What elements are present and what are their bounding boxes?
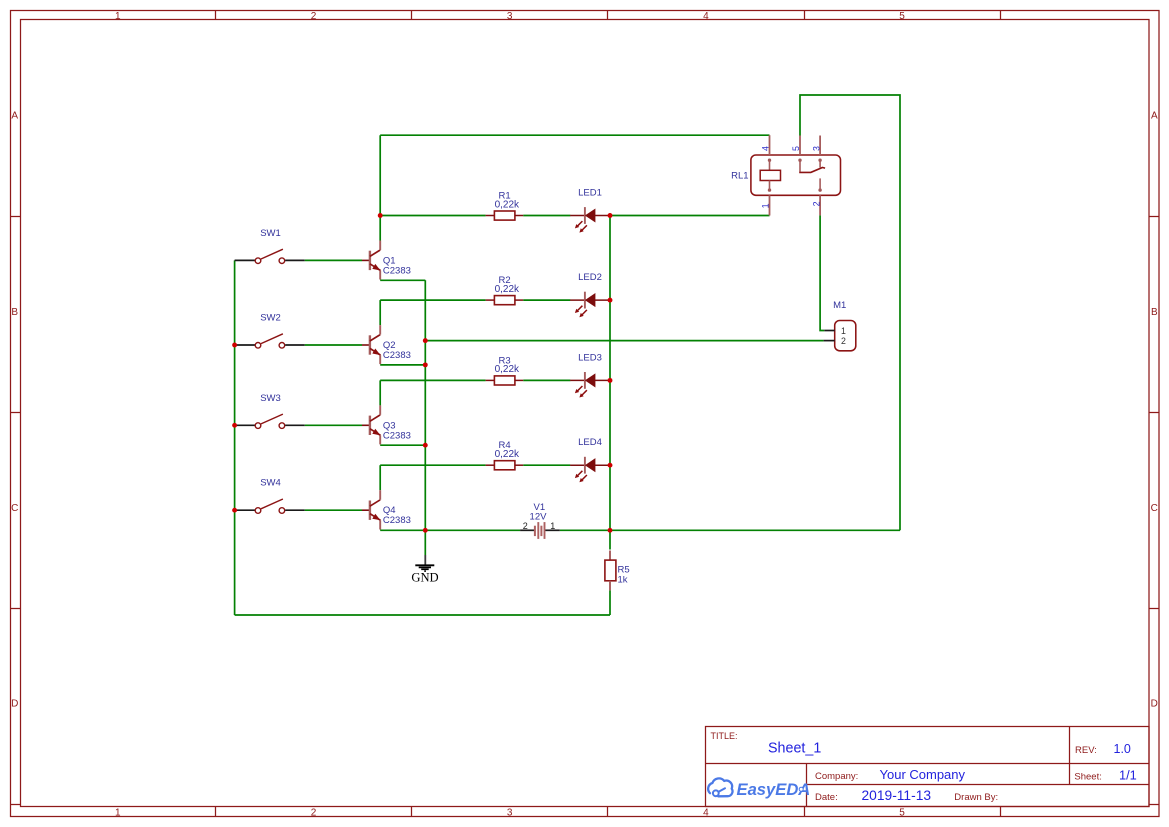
wire emitter bus vertical	[424, 280, 426, 530]
resistor R4 0,22k	[486, 440, 524, 470]
wire Q2 collector	[379, 300, 381, 325]
resistor R1 0,22k	[486, 191, 524, 221]
wire relay pin2 to M1 pin1	[820, 215, 824, 330]
wire bottom rail	[235, 614, 610, 616]
svg-text:2019-11-13: 2019-11-13	[862, 788, 932, 803]
wire row 1 resistor segment	[380, 215, 570, 217]
wire GND drop	[424, 530, 426, 555]
node LED4 output	[608, 463, 613, 468]
wire SW3 to Q3 base	[305, 424, 362, 426]
svg-text:C: C	[11, 503, 18, 514]
svg-text:0,22k: 0,22k	[495, 284, 520, 295]
node Q3 emitter / bus	[423, 443, 428, 448]
transistor Q4 C2383	[362, 490, 411, 529]
label Company:	[815, 771, 858, 782]
LED LED1	[570, 188, 610, 233]
LED LED2	[570, 272, 610, 317]
sheet value 1/1	[1119, 768, 1137, 783]
date value	[862, 788, 932, 803]
svg-text:1.0: 1.0	[1114, 742, 1131, 756]
node battery row / R5	[608, 528, 613, 533]
label Date:	[815, 792, 838, 803]
resistor R5 1k	[605, 551, 630, 591]
label Drawn By:	[954, 792, 998, 803]
wire LED1 to relay pin1	[610, 215, 770, 217]
svg-text:SW3: SW3	[260, 393, 281, 404]
wire SW2 to Q2 base	[305, 344, 362, 346]
transistor Q3 C2383	[362, 405, 411, 444]
svg-text:1: 1	[115, 807, 121, 818]
svg-text:TITLE:: TITLE:	[711, 731, 738, 741]
svg-text:0,22k: 0,22k	[495, 449, 520, 460]
svg-text:3: 3	[811, 146, 821, 151]
svg-text:5: 5	[899, 11, 905, 22]
wire Q1 emitter to bus	[380, 279, 425, 281]
wire row 3 resistor segment	[380, 379, 570, 381]
svg-text:Date:: Date:	[815, 792, 838, 803]
svg-text:0,22k: 0,22k	[495, 364, 520, 375]
svg-text:GND: GND	[411, 571, 438, 585]
EasyEDA logo	[708, 778, 810, 799]
battery V1 12V	[520, 502, 560, 539]
node SW2 / left bus	[232, 343, 237, 348]
switch SW3	[235, 393, 305, 429]
svg-text:1/1: 1/1	[1119, 768, 1137, 783]
relay RL1	[731, 135, 840, 215]
svg-text:B: B	[11, 307, 18, 318]
svg-text:2: 2	[523, 521, 528, 531]
switch SW2	[235, 313, 305, 349]
svg-text:2: 2	[311, 807, 317, 818]
wire M1 pin2 row	[425, 340, 823, 342]
svg-text:LED4: LED4	[578, 437, 602, 448]
svg-text:2: 2	[841, 336, 846, 346]
svg-text:SW4: SW4	[260, 478, 281, 489]
svg-text:5: 5	[791, 146, 801, 151]
node battery row / GND	[423, 528, 428, 533]
svg-text:C2383: C2383	[383, 430, 411, 441]
wire Q2 emitter to bus	[380, 364, 425, 366]
node M1 row / emitter bus	[423, 338, 428, 343]
title block grid	[706, 727, 1150, 807]
node SW3 / left bus	[232, 423, 237, 428]
wire LED output bus vertical	[609, 216, 611, 550]
wire Q4 collector	[379, 465, 381, 490]
company value	[880, 767, 966, 782]
svg-text:C2383: C2383	[383, 265, 411, 276]
node LED3 output	[608, 378, 613, 383]
svg-text:12V: 12V	[530, 511, 548, 522]
svg-text:1: 1	[115, 11, 121, 22]
svg-text:RL1: RL1	[731, 171, 748, 182]
wire Q1 collector column	[379, 135, 381, 240]
svg-text:A: A	[1151, 111, 1158, 122]
wire battery row right	[560, 529, 610, 531]
wire left switch bus vertical	[234, 260, 236, 615]
node R1 row / Q1 collector	[378, 213, 383, 218]
svg-text:4: 4	[703, 807, 709, 818]
node Q2 emitter / bus	[423, 362, 428, 367]
svg-text:1: 1	[760, 203, 770, 208]
svg-text:C2383: C2383	[383, 350, 411, 361]
resistor R2 0,22k	[486, 275, 524, 305]
wire battery row left	[380, 529, 520, 531]
svg-text:Company:: Company:	[815, 771, 858, 782]
svg-text:B: B	[1151, 307, 1158, 318]
svg-text:2: 2	[311, 11, 317, 22]
column dividers and numbers 1-5	[115, 11, 1000, 819]
wire row 2 resistor segment	[380, 299, 570, 301]
svg-text:SW2: SW2	[260, 313, 281, 324]
svg-text:Your Company: Your Company	[880, 767, 966, 782]
svg-text:LED3: LED3	[578, 352, 602, 363]
wire Q3 collector	[379, 380, 381, 405]
svg-text:5: 5	[899, 807, 905, 818]
switch SW4	[235, 478, 305, 514]
label TITLE:	[711, 731, 738, 741]
svg-text:Sheet_1: Sheet_1	[768, 741, 821, 757]
transistor Q1 C2383	[362, 241, 411, 280]
svg-text:LED1: LED1	[578, 188, 602, 199]
svg-text:2: 2	[811, 201, 821, 206]
svg-text:A: A	[11, 111, 18, 122]
svg-text:D: D	[1151, 699, 1158, 710]
svg-text:3: 3	[507, 11, 513, 22]
svg-text:1: 1	[841, 326, 846, 336]
wire SW4 to Q4 base	[305, 509, 362, 511]
node LED2 output	[608, 298, 613, 303]
svg-text:4: 4	[760, 146, 770, 151]
svg-text:Drawn By:: Drawn By:	[954, 792, 998, 803]
svg-text:M1: M1	[833, 300, 846, 311]
svg-text:3: 3	[507, 807, 513, 818]
svg-text:D: D	[11, 699, 18, 710]
wire R5 bottom to rail	[609, 590, 611, 615]
title Sheet_1	[768, 741, 821, 757]
label REV:	[1075, 745, 1097, 756]
label Sheet:	[1074, 772, 1101, 783]
svg-text:C: C	[1151, 503, 1158, 514]
ground GND	[411, 555, 438, 585]
svg-text:SW1: SW1	[260, 228, 281, 239]
svg-text:0,22k: 0,22k	[495, 199, 520, 210]
wire top rail Q1 collector to relay pin4	[380, 134, 769, 136]
svg-text:REV:: REV:	[1075, 745, 1097, 756]
transistor Q2 C2383	[362, 325, 411, 364]
svg-text:Sheet:: Sheet:	[1074, 772, 1101, 783]
wire Q3 emitter to bus	[380, 444, 425, 446]
switch SW1	[235, 228, 305, 264]
wire row 4 resistor segment	[380, 464, 570, 466]
LED LED4	[570, 437, 610, 482]
wire SW1 to Q1 base	[305, 259, 362, 261]
svg-text:LED2: LED2	[578, 272, 602, 283]
rev value 1.0	[1114, 742, 1131, 756]
node SW4 / left bus	[232, 508, 237, 513]
wire battery right to column	[610, 529, 900, 531]
svg-text:C2383: C2383	[383, 515, 411, 526]
svg-text:4: 4	[703, 11, 709, 22]
svg-text:1: 1	[550, 521, 555, 531]
svg-text:1k: 1k	[618, 574, 628, 585]
resistor R3 0,22k	[486, 355, 524, 385]
wire relay pin5 to top	[800, 95, 900, 530]
LED LED3	[570, 352, 610, 397]
connector M1	[824, 300, 856, 351]
node LED1 output	[608, 213, 613, 218]
